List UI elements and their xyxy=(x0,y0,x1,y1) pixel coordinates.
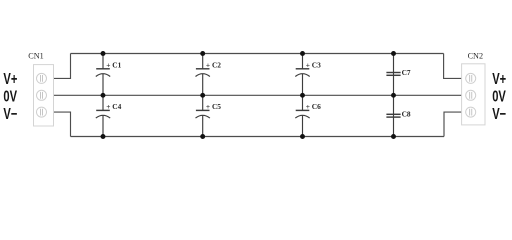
svg-text:+ C1: + C1 xyxy=(106,60,121,69)
capacitor C4 xyxy=(96,95,110,136)
junction top rail at C3 xyxy=(300,51,305,56)
junction bottom rail at C8 xyxy=(391,134,396,139)
connector CN1 xyxy=(34,65,54,126)
svg-text:C8: C8 xyxy=(402,109,411,118)
junction top rail at C7 xyxy=(391,51,396,56)
capacitor C8 xyxy=(386,95,400,136)
capacitor C7 xyxy=(386,54,400,96)
junction top rail at C2 xyxy=(200,51,205,56)
wire middle rail xyxy=(54,94,462,96)
svg-text:+ C2: + C2 xyxy=(206,60,221,69)
svg-text:0V: 0V xyxy=(3,88,17,105)
CN1 pin 1 xyxy=(37,73,47,83)
junction bottom rail at C4 xyxy=(101,134,106,139)
capacitor C2 xyxy=(196,54,210,96)
svg-text:V−: V− xyxy=(492,105,506,122)
svg-text:V+: V+ xyxy=(492,70,506,87)
CN2 pin 3 xyxy=(466,107,476,117)
capacitor C6 xyxy=(295,95,309,136)
svg-text:V−: V− xyxy=(3,105,17,122)
CN1 pin 2 xyxy=(37,90,47,100)
capacitor C5 xyxy=(196,95,210,136)
junction bottom rail at C6 xyxy=(300,134,305,139)
wire top rail xyxy=(71,53,444,55)
svg-text:CN1: CN1 xyxy=(28,52,43,61)
wire CN1 pin3 to bottom rail xyxy=(54,112,71,136)
wire bottom rail xyxy=(71,136,445,138)
CN2 pin 1 xyxy=(466,73,476,83)
junction middle rail at C3/C6 xyxy=(300,93,305,98)
svg-text:0V: 0V xyxy=(492,88,506,105)
junction middle rail at C7/C8 xyxy=(391,93,396,98)
junction middle rail at C2/C5 xyxy=(200,93,205,98)
connector CN2 xyxy=(462,64,485,125)
svg-text:+ C3: + C3 xyxy=(306,60,321,69)
junction top rail at C1 xyxy=(101,51,106,56)
svg-text:CN2: CN2 xyxy=(468,52,483,61)
svg-text:V+: V+ xyxy=(3,70,17,87)
wire top rail to CN2 pin1 xyxy=(444,54,462,79)
CN1 pin 3 xyxy=(37,107,47,117)
CN2 pin 2 xyxy=(466,90,476,100)
junction middle rail at C1/C4 xyxy=(101,93,106,98)
svg-text:+ C6: + C6 xyxy=(306,102,321,111)
wire CN1 pin1 to top rail xyxy=(54,54,71,79)
junction bottom rail at C5 xyxy=(200,134,205,139)
wire bottom rail to CN2 pin3 xyxy=(444,112,462,136)
capacitor C1 xyxy=(96,54,110,96)
svg-text:C7: C7 xyxy=(402,68,411,77)
capacitor C3 xyxy=(295,54,309,96)
svg-text:+ C4: + C4 xyxy=(106,102,121,111)
svg-text:+ C5: + C5 xyxy=(206,102,221,111)
